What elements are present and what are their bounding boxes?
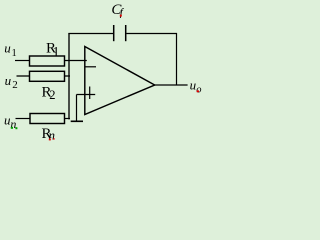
- svg-text:1: 1: [12, 48, 17, 59]
- wire R1 to op-amp inverting input: [65, 60, 87, 62]
- wire un lead: [16, 118, 31, 120]
- capacitor Cf left plate: [113, 25, 115, 41]
- wire u2 lead: [17, 75, 31, 77]
- ground bar: [71, 120, 83, 122]
- resistor Rn: [30, 114, 65, 124]
- wire capacitor left lead: [68, 33, 113, 35]
- capacitor Cf right plate: [125, 25, 127, 41]
- wire summing bus vertical: [68, 33, 70, 119]
- wire feedback vertical: [176, 33, 178, 85]
- svg-text:2: 2: [49, 88, 55, 102]
- wire u1 lead: [15, 60, 30, 62]
- wire capacitor right lead: [126, 33, 177, 35]
- wire non-inverting input vertical to ground: [76, 95, 78, 122]
- op-amp U1 triangle: [85, 47, 155, 115]
- op-amp minus marker: [86, 66, 97, 68]
- resistor R1: [30, 56, 65, 66]
- svg-text:o: o: [196, 85, 201, 96]
- svg-text:u: u: [4, 41, 11, 56]
- resistor R2: [30, 71, 65, 81]
- op-amp plus marker vertical stroke: [89, 87, 91, 100]
- svg-text:u: u: [5, 73, 12, 88]
- wire R2 to summing bus: [65, 75, 71, 77]
- wire output: [155, 84, 188, 86]
- wire non-inverting input horizontal: [77, 94, 96, 96]
- svg-text:2: 2: [12, 79, 18, 91]
- wire Rn to summing bus: [65, 118, 71, 120]
- green accents on un subscript: [11, 127, 13, 129]
- red accent on Cf subscript: [120, 15, 122, 17]
- svg-text:1: 1: [53, 45, 60, 60]
- red accent on uo subscript: [197, 90, 199, 92]
- red accents on Rn subscript: [49, 139, 51, 141]
